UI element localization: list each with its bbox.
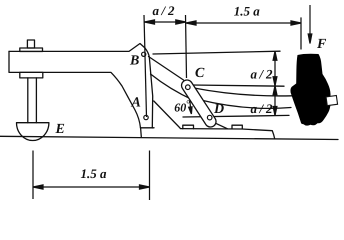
svg-text:60: 60 [174,100,186,114]
svg-text:A: A [131,96,141,111]
svg-text:F: F [316,37,327,52]
svg-text:a: a [251,101,258,116]
svg-text:2: 2 [265,67,273,82]
svg-text:a: a [153,3,160,18]
svg-text:D: D [213,102,224,117]
svg-text:1.5 a: 1.5 a [81,166,108,181]
svg-text:2: 2 [265,101,273,116]
svg-text:1.5 a: 1.5 a [234,4,260,19]
svg-text:2: 2 [167,3,175,18]
svg-text:E: E [55,122,65,137]
svg-text:C: C [195,66,205,81]
svg-text:B: B [129,54,139,69]
svg-text:/: / [161,3,167,18]
svg-text:a: a [251,67,258,82]
svg-text:/: / [259,67,265,82]
svg-text:°: ° [186,99,190,110]
